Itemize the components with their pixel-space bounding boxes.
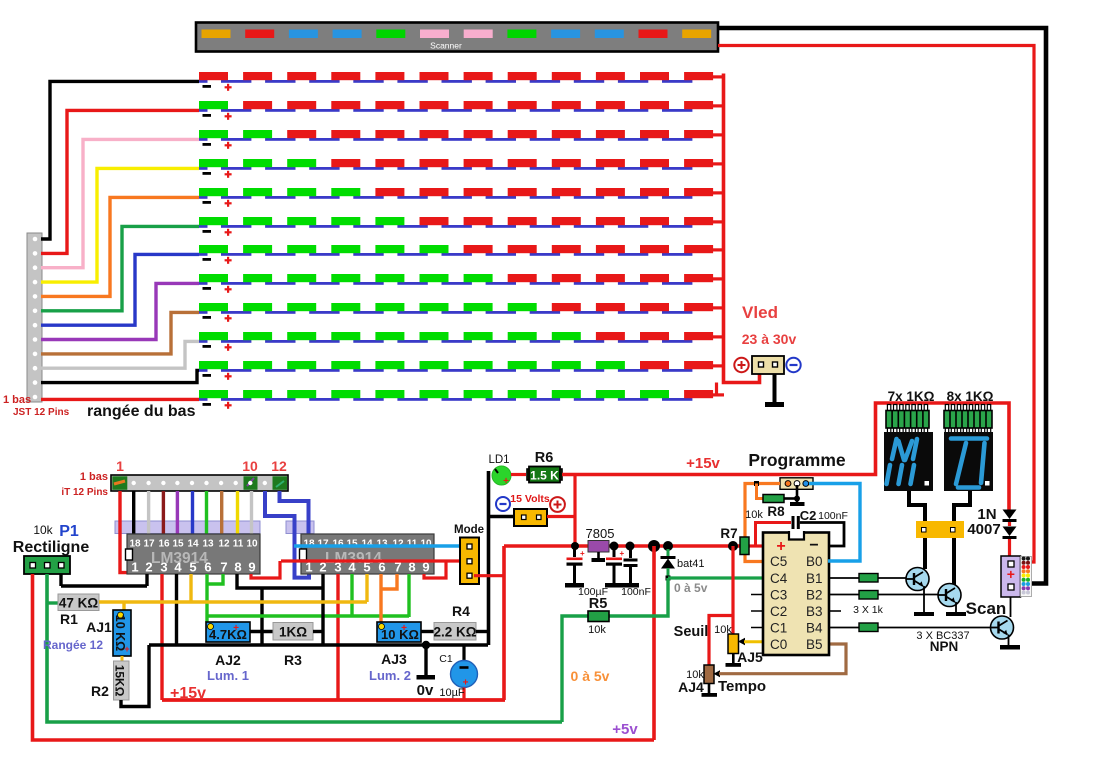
svg-text:Scanner: Scanner <box>430 41 462 51</box>
svg-text:R7: R7 <box>720 526 737 541</box>
wire LD1 cathode vertical (black) to 0v <box>487 471 491 645</box>
svg-text:1KΩ: 1KΩ <box>279 625 307 640</box>
svg-text:1: 1 <box>116 458 124 474</box>
svg-text:13: 13 <box>202 539 214 550</box>
node junction +5v riser <box>648 540 660 552</box>
LED row 11 : 10 green, 2 red LEDs with cathode rail <box>199 361 724 380</box>
svg-text:−: − <box>809 537 818 554</box>
node junction 0v <box>422 641 430 649</box>
wire iT connector to LM3914 U1 pin 13 <box>205 491 208 534</box>
socket strip above U2 <box>286 521 314 534</box>
svg-text:R5: R5 <box>589 596 608 612</box>
svg-text:15KΩ: 15KΩ <box>113 665 127 697</box>
svg-text:R8: R8 <box>767 504 785 519</box>
trimmer AJ3 10K <box>377 622 421 642</box>
wire JST pin 8 to LED row 8 cathode <box>41 283 199 339</box>
regulator 7805 <box>588 541 609 563</box>
wire U2 pin4 to green bus <box>350 574 353 616</box>
capacitor 100nF <box>622 546 639 588</box>
svg-text:Rangée 12: Rangée 12 <box>43 638 103 652</box>
svg-text:16: 16 <box>332 539 344 550</box>
wire iT connector to LM3914 U1 pin 12 <box>220 491 223 534</box>
svg-text:C1: C1 <box>770 620 787 635</box>
LED row 8 : 7 green, 5 red LEDs with cathode rail <box>199 274 724 293</box>
svg-text:1 bas: 1 bas <box>80 471 108 483</box>
resistor R3 1K <box>273 623 313 641</box>
svg-text:Tempo: Tempo <box>718 678 766 695</box>
wire U1 pin2 to ground rail <box>145 574 148 586</box>
connector orange jumper block <box>916 521 964 538</box>
ground Q2 emitter <box>946 602 966 616</box>
wire yellow bus R1 to U2 pin5 <box>99 600 367 603</box>
wire JST pin 10 to LED row 10 cathode <box>41 341 199 368</box>
svg-text:AJ5: AJ5 <box>737 649 763 665</box>
wire green bus AJ2..U2 pin8 <box>208 614 409 617</box>
svg-text:10k: 10k <box>33 523 53 537</box>
LED row 4 : 3 green, 9 red LEDs with cathode rail <box>199 159 724 178</box>
resistor R5 10k <box>588 611 609 622</box>
wire U2 pin9 to mode line <box>424 561 446 578</box>
svg-text:3 X 1k: 3 X 1k <box>853 604 884 616</box>
svg-text:C2: C2 <box>800 508 817 523</box>
svg-text:2.2 KΩ: 2.2 KΩ <box>433 625 476 640</box>
svg-text:Mode: Mode <box>454 524 484 536</box>
power plus terminal 15V <box>550 497 565 512</box>
wire JST pin 2 to LED row 2 cathode <box>41 110 199 253</box>
wire B1 to base resistor <box>828 577 859 579</box>
wire between diodes <box>1008 522 1011 526</box>
connector 15 Volts input <box>514 509 547 526</box>
wire B0 to jumper (cyan) <box>809 484 860 562</box>
trimmer AJ4 10k <box>702 665 721 697</box>
wire 15V connector right (red) <box>547 515 575 518</box>
svg-text:0 à 5v: 0 à 5v <box>571 668 610 684</box>
diode bat41 <box>661 549 676 578</box>
wire JST pin 7 to LED row 7 cathode <box>41 254 199 325</box>
resistor R6 1.5K <box>527 467 562 483</box>
resistor R4 2.2K <box>433 623 476 641</box>
svg-text:18: 18 <box>129 539 141 550</box>
svg-text:7: 7 <box>220 560 227 575</box>
wire green 0 a 5v to C4 <box>668 576 763 579</box>
node junction green 0-5v <box>666 576 671 581</box>
svg-text:Scan: Scan <box>966 599 1007 618</box>
svg-text:0v: 0v <box>417 682 434 699</box>
wire iT pin1 (red) to LM3914 U1 pin 1 <box>120 491 134 574</box>
svg-text:B4: B4 <box>806 620 823 635</box>
svg-text:18: 18 <box>303 539 315 550</box>
svg-text:10k: 10k <box>588 624 606 636</box>
wire AJ5 wiper to C0 (yellow) <box>744 640 763 643</box>
transistor Q1 BC337 <box>906 568 929 591</box>
svg-text:17: 17 <box>143 539 155 550</box>
svg-text:23 à 30v: 23 à 30v <box>742 331 797 347</box>
capacitor C 100uF (input) <box>565 546 585 588</box>
ground Q1 emitter <box>914 586 934 616</box>
power minus terminal 15V <box>496 497 510 511</box>
svg-text:+: + <box>580 549 585 558</box>
svg-text:17: 17 <box>317 539 329 550</box>
svg-text:1.5 K: 1.5 K <box>530 469 559 483</box>
svg-text:8: 8 <box>234 560 241 575</box>
LED row 3 : 2 green, 10 red LEDs with cathode rail <box>199 130 724 149</box>
svg-text:AJ4: AJ4 <box>678 679 704 695</box>
svg-text:JST 12 Pins: JST 12 Pins <box>13 407 70 418</box>
svg-text:NPN: NPN <box>930 639 959 654</box>
svg-text:10k: 10k <box>714 624 732 636</box>
capacitor C1 10uF <box>451 645 478 700</box>
transistor Q2 BC337 <box>938 584 961 607</box>
wire B2 to base resistor <box>828 594 859 596</box>
ground Q3 emitter <box>1000 635 1020 650</box>
wire R3 to U2 pin2 riser <box>313 630 323 633</box>
pin stubs C3 C2 C1 <box>751 595 764 628</box>
svg-text:14: 14 <box>187 539 199 550</box>
wire iT connector to LM3914 U1 pin 11 <box>236 491 239 534</box>
svg-text:9: 9 <box>248 560 255 575</box>
svg-text:1 bas: 1 bas <box>3 394 31 406</box>
wire scan connector to Q3 <box>1010 597 1012 617</box>
wire mode select (red) U1 pin9 to Mode connector <box>281 559 467 562</box>
wire +15v vertical riser x=504 <box>502 546 506 700</box>
power plus terminal Vled <box>734 358 748 372</box>
svg-text:14: 14 <box>361 539 373 550</box>
svg-text:47 KΩ: 47 KΩ <box>59 596 99 611</box>
svg-text:LM3914: LM3914 <box>325 550 382 567</box>
wire orange branch to R8 <box>757 484 765 499</box>
wire U2 pin3 to +15v bus <box>336 574 339 700</box>
diode D2 1N4007 <box>1003 527 1017 540</box>
svg-text:B5: B5 <box>806 637 823 652</box>
connector JST 12 Pins (rows) <box>27 233 42 402</box>
svg-text:AJ3: AJ3 <box>381 651 407 667</box>
wire JST pin 4 to LED row 4 cathode <box>41 168 199 282</box>
svg-text:bat41: bat41 <box>677 558 705 570</box>
LED row 9 : 8 green, 4 red LEDs with cathode rail <box>199 303 724 322</box>
wire DSP1 to Q1 collector <box>909 491 925 569</box>
svg-text:B1: B1 <box>806 571 823 586</box>
svg-text:4007: 4007 <box>967 521 1000 538</box>
wire JST pin 9 to LED row 9 cathode <box>41 312 199 354</box>
node Vled anode bus (red vertical) <box>724 74 760 383</box>
wire scanner cathode (black) to ribbon connector <box>718 28 1046 584</box>
svg-text:Rectiligne: Rectiligne <box>13 539 90 556</box>
svg-text:C5: C5 <box>770 554 787 569</box>
wire R7 to IC plus <box>749 544 763 547</box>
wire JST pin 3 to LED row 3 cathode <box>41 139 199 267</box>
svg-text:R2: R2 <box>91 683 109 699</box>
LED row 1 : 0 green, 12 red LEDs with cathode rail <box>199 72 724 91</box>
wire DSP2 to Q2 collector <box>954 491 970 585</box>
svg-text:LM3914: LM3914 <box>151 550 208 567</box>
wire base resistor to Q1 <box>878 577 907 579</box>
wire P1 wiper (green) to bottom green bus <box>47 574 562 722</box>
svg-text:R1: R1 <box>60 611 78 627</box>
svg-text:Seuil: Seuil <box>674 624 709 640</box>
ground below Vled connector <box>765 374 784 407</box>
wire B4 to base resistor <box>828 627 859 629</box>
IC LM3914 U2 <box>300 534 435 575</box>
wire cyan U2 to Mode connector <box>294 544 467 548</box>
wire scanner anode (red) to ribbon connector <box>718 46 1034 563</box>
capacitor C2 100nF <box>792 516 845 546</box>
wire green bat41 to R5 to bottom bus <box>562 578 668 722</box>
svg-text:+5v: +5v <box>612 721 638 738</box>
wire JST pin 12 to LED row 12 cathode <box>41 398 199 401</box>
resistor R2 15K <box>113 661 130 700</box>
wire U1 pin6 to AJ2 <box>205 574 208 622</box>
resistor 1k (B4) <box>859 623 878 632</box>
wire R6 branch down to main red bus <box>573 475 576 547</box>
wire U1 pin5 to signal bus (yellow) <box>189 574 192 602</box>
ground 0v <box>417 645 436 680</box>
connector ribbon colour key <box>1021 557 1032 597</box>
svg-text:8x 1KΩ: 8x 1KΩ <box>947 389 994 404</box>
wire R4 right to LD1 vertical <box>476 630 488 633</box>
wire iT pin 11 (blue) to LM3914 U2 pin 1 <box>265 491 309 578</box>
socket strip above U1 <box>115 521 260 534</box>
wire iT connector to LM3914 U1 pin 16 <box>162 491 165 534</box>
svg-text:R3: R3 <box>284 652 302 668</box>
wire U2 pin5 to yellow bus <box>365 574 368 602</box>
svg-text:100nF: 100nF <box>818 510 848 522</box>
wire iT connector to LM3914 U1 pin 15 <box>176 491 179 534</box>
svg-text:C2: C2 <box>770 604 787 619</box>
wire iT pin 12 (blue) to LM3914 U2 top <box>280 491 309 534</box>
resistor R1 47K <box>58 594 99 611</box>
svg-text:15: 15 <box>346 539 358 550</box>
LED row 7 : 6 green, 6 red LEDs with cathode rail <box>199 245 724 264</box>
node junction orange <box>754 481 759 486</box>
connector Vled supply <box>752 356 784 374</box>
LED row 5 : 4 green, 8 red LEDs with cathode rail <box>199 188 724 207</box>
pin stub B3 <box>828 610 841 612</box>
node junction C3 <box>610 542 619 551</box>
wire AJ2 to R3 <box>250 630 273 633</box>
svg-text:rangée du bas: rangée du bas <box>87 403 196 420</box>
wire U1 pin8 to 0v bus <box>237 574 323 645</box>
svg-text:10 KΩ: 10 KΩ <box>381 627 419 642</box>
svg-text:AJ1: AJ1 <box>86 619 112 635</box>
resistor 1k (B1) <box>859 574 878 583</box>
wire main +15v bus (red) <box>504 544 740 548</box>
svg-text:B0: B0 <box>806 554 823 569</box>
svg-text:10µF: 10µF <box>439 687 465 699</box>
wire base resistor to Q3 (Scan) <box>878 627 991 629</box>
svg-text:AJ2: AJ2 <box>215 652 241 668</box>
resistor R8 10k <box>763 495 784 503</box>
wire AJ1 to R2 <box>121 656 124 662</box>
svg-text:+: + <box>1007 566 1015 582</box>
svg-text:+15v: +15v <box>170 685 206 702</box>
svg-text:12: 12 <box>271 458 287 474</box>
wire 0v bus (black horizontal) <box>149 643 488 646</box>
wire yellow to AJ1 top <box>122 602 125 611</box>
potentiometer P1 10k rectiligne <box>24 556 70 574</box>
wire +5v riser (red) down to bottom bus <box>652 546 656 740</box>
wire seuil red: bus to AJ5 and AJ4 <box>709 546 733 665</box>
svg-text:Vled: Vled <box>742 303 778 322</box>
svg-text:15: 15 <box>172 539 184 550</box>
wire LD1 to R6 <box>511 473 526 476</box>
trimmer AJ2 4.7K <box>206 622 250 642</box>
resistor 1k (B2) <box>859 591 878 600</box>
wire P1 wiper branch to R1 <box>47 601 58 604</box>
svg-text:1: 1 <box>131 560 138 575</box>
svg-text:0 à 5v: 0 à 5v <box>674 581 708 595</box>
wire JST pin 6 to LED row 6 cathode <box>41 226 199 310</box>
wire +15v bus <box>162 698 505 702</box>
LED row 10 : 9 green, 3 red LEDs with cathode rail <box>199 332 724 351</box>
wire D2 to scan connector <box>1008 539 1011 557</box>
node junction C4 <box>626 542 635 551</box>
wire orange jumper to C5 <box>745 484 780 562</box>
connector programme jumper (3 pins) <box>780 478 813 490</box>
svg-text:10 KΩ: 10 KΩ <box>113 615 127 651</box>
LED LD1 <box>492 466 511 487</box>
wire R8 to ground stem <box>784 497 797 500</box>
svg-text:10: 10 <box>420 539 432 550</box>
wire JST pin 5 to LED row 5 cathode <box>41 197 199 296</box>
svg-text:11: 11 <box>233 539 244 550</box>
svg-text:B3: B3 <box>806 604 823 619</box>
wire ground link P1 to U1 pin2 <box>61 584 147 587</box>
svg-text:7x 1KΩ: 7x 1KΩ <box>888 389 935 404</box>
wire iT connector to LM3914 U1 pin 14 <box>191 491 194 534</box>
svg-text:R4: R4 <box>452 603 470 619</box>
svg-text:B2: B2 <box>806 587 823 602</box>
scanner bar (Scanner) <box>196 23 718 52</box>
svg-text:4.7KΩ: 4.7KΩ <box>209 627 247 642</box>
wire red to C2 left <box>756 523 792 547</box>
trimmer AJ1 10K <box>113 610 131 656</box>
wire base resistor to Q2 <box>878 594 939 596</box>
wire AJ4 wiper to B5 (brown) <box>719 644 846 674</box>
svg-text:+: + <box>503 476 509 487</box>
svg-text:10: 10 <box>246 539 258 550</box>
svg-text:100nF: 100nF <box>621 586 651 598</box>
resistor network RN2 8x1K <box>944 405 992 434</box>
svg-text:16: 16 <box>158 539 170 550</box>
wire U2 pin2 / R3 to 0v bus <box>321 574 324 645</box>
svg-text:13: 13 <box>376 539 388 550</box>
connector iT 12 Pins (top of LM3914s) <box>111 475 288 491</box>
svg-text:+: + <box>776 538 785 555</box>
7-segment display DSP1 <box>884 432 933 491</box>
wire JST pin 1 to LED row 1 cathode <box>41 81 199 239</box>
svg-text:C4: C4 <box>770 571 788 586</box>
trimmer AJ5 10k <box>726 634 746 667</box>
node junction bat41 <box>663 541 673 551</box>
LED row 12 : 11 green, 1 red LEDs with cathode rail <box>199 390 724 409</box>
transistor Q3 BC337 (Scan) <box>991 616 1014 639</box>
svg-text:P1: P1 <box>59 523 79 540</box>
svg-text:+: + <box>620 549 625 558</box>
svg-text:15 Volts: 15 Volts <box>510 493 550 505</box>
svg-text:C3: C3 <box>770 587 787 602</box>
connector Mode <box>460 538 479 585</box>
svg-text:LD1: LD1 <box>488 454 509 466</box>
wire R2 bottom to 0v bus <box>121 645 149 707</box>
node junction R6 drop <box>571 542 579 550</box>
svg-text:Lum. 2: Lum. 2 <box>369 668 411 683</box>
7-segment display DSP2 <box>944 432 993 491</box>
wire U1 pin9 to mode line <box>251 561 280 578</box>
svg-text:10k: 10k <box>745 509 763 521</box>
svg-text:12: 12 <box>218 539 230 550</box>
svg-text:11: 11 <box>407 539 418 550</box>
LED row 2 : 1 green, 11 red LEDs with cathode rail <box>199 101 724 120</box>
svg-text:12: 12 <box>392 539 404 550</box>
wire U1 pin3 to +15v bus <box>160 574 163 700</box>
svg-text:7805: 7805 <box>586 526 615 541</box>
wire AJ3 to R4 <box>421 630 434 633</box>
capacitor 100uF (output) <box>605 546 625 588</box>
wire P1 pin3 (black) down <box>59 574 62 586</box>
node junction R7 <box>728 541 738 551</box>
svg-text:+15v: +15v <box>686 455 720 472</box>
svg-text:iT 12 Pins: iT 12 Pins <box>61 487 108 498</box>
wire U1 pin4 to 0v bus <box>175 574 178 645</box>
IC programme (PIC) U3 <box>763 531 829 655</box>
IC LM3914 U1 <box>126 534 261 575</box>
wire Mode pin3 to +15v vertical <box>474 574 504 577</box>
svg-text:C0: C0 <box>770 637 787 652</box>
wire iT connector to LM3914 U1 pin 10 <box>250 491 253 534</box>
wire P1 pin1 (red) to +5v bottom bus <box>33 574 655 740</box>
resistor R7 <box>740 537 749 555</box>
connector scan output (lavender) <box>1001 556 1021 597</box>
svg-text:R6: R6 <box>535 450 554 466</box>
wire U1 pin7 tie to pin6 <box>207 574 223 584</box>
wire iT connector to LM3914 U1 pin 18 <box>132 491 135 534</box>
wire U2 pins6+7 to AJ3 (orange) <box>381 574 397 623</box>
wire U2 pin8 to green bus <box>407 574 410 617</box>
wire row 12 riser to Vled bus <box>715 383 718 396</box>
ground below jumper <box>790 485 805 506</box>
wire JST pin 11 to LED row 11 cathode <box>41 370 199 382</box>
wire iT connector to LM3914 U1 pin 17 <box>147 491 150 534</box>
power minus terminal Vled <box>786 358 800 372</box>
svg-text:10: 10 <box>242 458 258 474</box>
resistor network RN1 7x1K <box>886 405 929 434</box>
wire 15V connector left (black) <box>488 515 514 518</box>
diode D1 1N4007 <box>1003 510 1017 523</box>
LED row 6 : 5 green, 7 red LEDs with cathode rail <box>199 217 724 236</box>
svg-text:C1: C1 <box>439 653 453 665</box>
svg-text:Lum. 1: Lum. 1 <box>207 668 249 683</box>
svg-text:Programme: Programme <box>748 450 846 470</box>
wire R6 to +15v rail over resistor networks <box>562 403 1009 510</box>
